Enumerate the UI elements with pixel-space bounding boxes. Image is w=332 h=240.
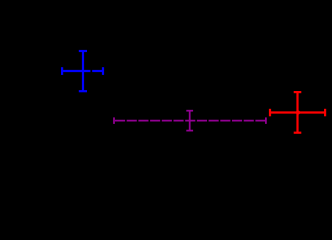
blue x-error left cap — [61, 67, 63, 75]
blue x-error line left segment — [62, 70, 90, 72]
blue y-error top cap — [79, 50, 87, 52]
purple errorbar point 2 — [114, 111, 266, 131]
purple x-error dashed line — [114, 120, 266, 122]
red y-error line — [296, 92, 298, 133]
purple x-error left cap — [113, 117, 115, 124]
purple y-error bottom cap — [186, 130, 193, 132]
purple y-error line — [189, 111, 191, 131]
blue y-error line — [82, 51, 84, 91]
blue x-error right cap — [102, 67, 104, 75]
red x-error line — [270, 111, 325, 113]
blue errorbar point 1 — [62, 51, 103, 91]
blue x-error line right segment — [92, 70, 103, 72]
red errorbar point 3 — [270, 92, 325, 133]
red y-error top cap — [294, 91, 302, 93]
red x-error right cap — [324, 109, 326, 117]
red data point marker — [296, 111, 300, 115]
purple x-error right cap — [265, 117, 267, 124]
red x-error left cap — [269, 109, 271, 117]
blue y-error bottom cap — [79, 90, 87, 92]
red y-error bottom cap — [294, 132, 302, 134]
purple y-error top cap — [186, 110, 193, 112]
